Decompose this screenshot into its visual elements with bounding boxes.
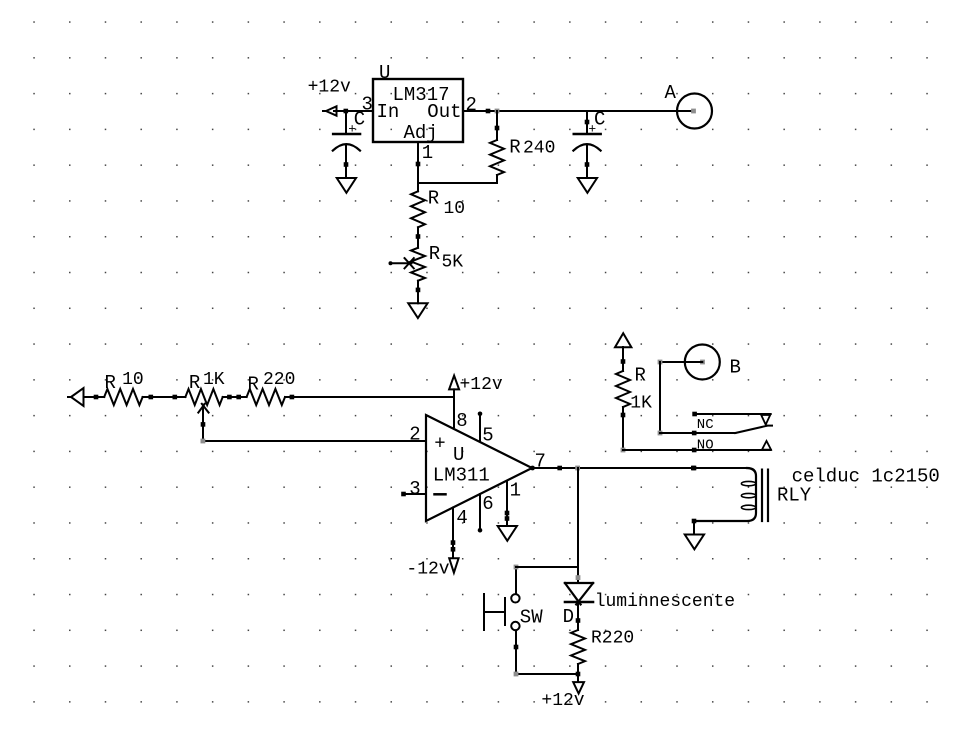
wire: switch bottom to +12v node	[514, 630, 581, 676]
svg-text:10: 10	[444, 199, 466, 219]
comparator U LM311	[409, 410, 546, 533]
LED D (luminnescente)	[563, 575, 594, 630]
svg-text:U: U	[379, 62, 390, 84]
resistor R 10 (adj divider)	[411, 188, 465, 248]
svg-text:220: 220	[263, 370, 295, 390]
resistor R 240	[490, 111, 555, 183]
svg-text:LM311: LM311	[433, 464, 490, 486]
svg-text:240: 240	[523, 139, 555, 159]
wire: R240 bottom to Adj net	[418, 182, 497, 184]
svg-text:R: R	[248, 373, 259, 395]
svg-text:1K: 1K	[630, 394, 652, 414]
wire: +12v to pin 8	[453, 389, 455, 427]
svg-text:7: 7	[535, 451, 546, 473]
svg-text:SW: SW	[520, 607, 543, 629]
resistor R 1K (contact pull-up)	[616, 347, 652, 450]
potentiometer R 1K	[185, 370, 246, 441]
relay contact blade	[660, 426, 772, 436]
wire: pin 7 output to relay coil	[530, 466, 747, 471]
ground (output cap)	[578, 178, 597, 193]
power flag (contact pull-up)	[615, 333, 631, 347]
svg-text:Adj: Adj	[404, 122, 438, 144]
label: luminnescente	[595, 592, 735, 612]
svg-text:5K: 5K	[442, 252, 464, 272]
svg-text:1K: 1K	[203, 370, 225, 390]
switch SW (pushbutton)	[484, 594, 543, 630]
svg-text:R: R	[635, 365, 646, 387]
ground (adj divider)	[408, 303, 427, 318]
svg-text:10: 10	[122, 370, 144, 390]
svg-text:8: 8	[456, 410, 467, 432]
svg-text:2: 2	[409, 424, 420, 446]
svg-text:A: A	[665, 82, 677, 104]
svg-text:1: 1	[510, 479, 521, 501]
ground (input cap)	[337, 178, 356, 193]
ground (pin 1)	[498, 526, 517, 541]
svg-text:-12v: -12v	[406, 560, 449, 580]
svg-text:3: 3	[409, 478, 420, 500]
capacitor C (input filter)	[333, 109, 365, 178]
wire: pin 1 to ground	[505, 481, 510, 526]
connector A	[665, 82, 713, 129]
net connector (comparator input)	[68, 388, 84, 406]
potentiometer R 5K	[389, 243, 464, 303]
svg-text:R: R	[429, 243, 440, 265]
svg-text:NC: NC	[697, 417, 714, 433]
svg-text:B: B	[730, 357, 741, 379]
svg-text:Out: Out	[427, 101, 461, 123]
resistor R 220 (input)	[247, 370, 454, 405]
svg-text:6: 6	[482, 493, 493, 515]
svg-text:2: 2	[466, 94, 477, 116]
svg-text:+: +	[348, 122, 356, 137]
relay contact NC	[692, 412, 770, 433]
wire: Adj pin down	[416, 142, 421, 191]
wire: pin 4 to -12v	[451, 508, 456, 559]
wire: LM317 Out to node A	[463, 109, 693, 114]
ground (relay coil)	[685, 519, 704, 550]
svg-text:+12v: +12v	[541, 691, 584, 711]
relay contact NO terminal	[697, 438, 771, 454]
power flag +12v (comparator V+)	[449, 375, 503, 395]
resistor R 10 (input)	[84, 370, 186, 405]
resistor R220 (LED series)	[571, 628, 634, 682]
svg-text:+: +	[434, 433, 445, 455]
svg-text:NO: NO	[697, 438, 714, 454]
wire: pot wiper to pin 2 (+)	[201, 439, 427, 444]
wire: R pull-up to NO contact	[621, 448, 771, 453]
svg-text:celduc 1c2150: celduc 1c2150	[792, 465, 940, 487]
IC U LM317	[362, 62, 477, 164]
power flag +12v (LED return)	[541, 682, 584, 711]
svg-text:5: 5	[482, 425, 493, 447]
power flag -12v	[406, 558, 458, 579]
svg-text:4: 4	[456, 507, 467, 529]
svg-text:R: R	[105, 372, 116, 394]
svg-text:RLY: RLY	[777, 485, 812, 507]
svg-text:+12v: +12v	[460, 375, 503, 395]
svg-text:R: R	[428, 188, 439, 210]
label: celduc 1c2150	[792, 465, 940, 487]
wire: B to relay pole	[658, 360, 703, 436]
relay coil RLY (celduc 1c2150)	[692, 466, 812, 521]
svg-text:U: U	[453, 444, 464, 466]
svg-text:R220: R220	[591, 628, 634, 648]
connector B	[685, 345, 741, 380]
svg-text:+12v: +12v	[308, 78, 351, 98]
svg-text:R: R	[189, 372, 200, 394]
svg-text:3: 3	[362, 94, 373, 116]
wire: input to LM317 In pin	[334, 109, 373, 114]
power flag +12v (regulator input)	[308, 78, 351, 116]
svg-text:1: 1	[422, 142, 433, 164]
svg-text:+: +	[588, 122, 596, 137]
svg-text:In: In	[377, 101, 400, 123]
capacitor C (output filter)	[573, 109, 605, 178]
svg-text:D: D	[563, 606, 574, 628]
svg-text:R: R	[509, 137, 520, 159]
wire: output branch to LED/switch	[577, 468, 579, 583]
wire: switch top to LED node	[514, 565, 578, 594]
svg-text:luminnescente: luminnescente	[595, 592, 735, 612]
wire: pin 3 (-) stub	[401, 492, 426, 497]
